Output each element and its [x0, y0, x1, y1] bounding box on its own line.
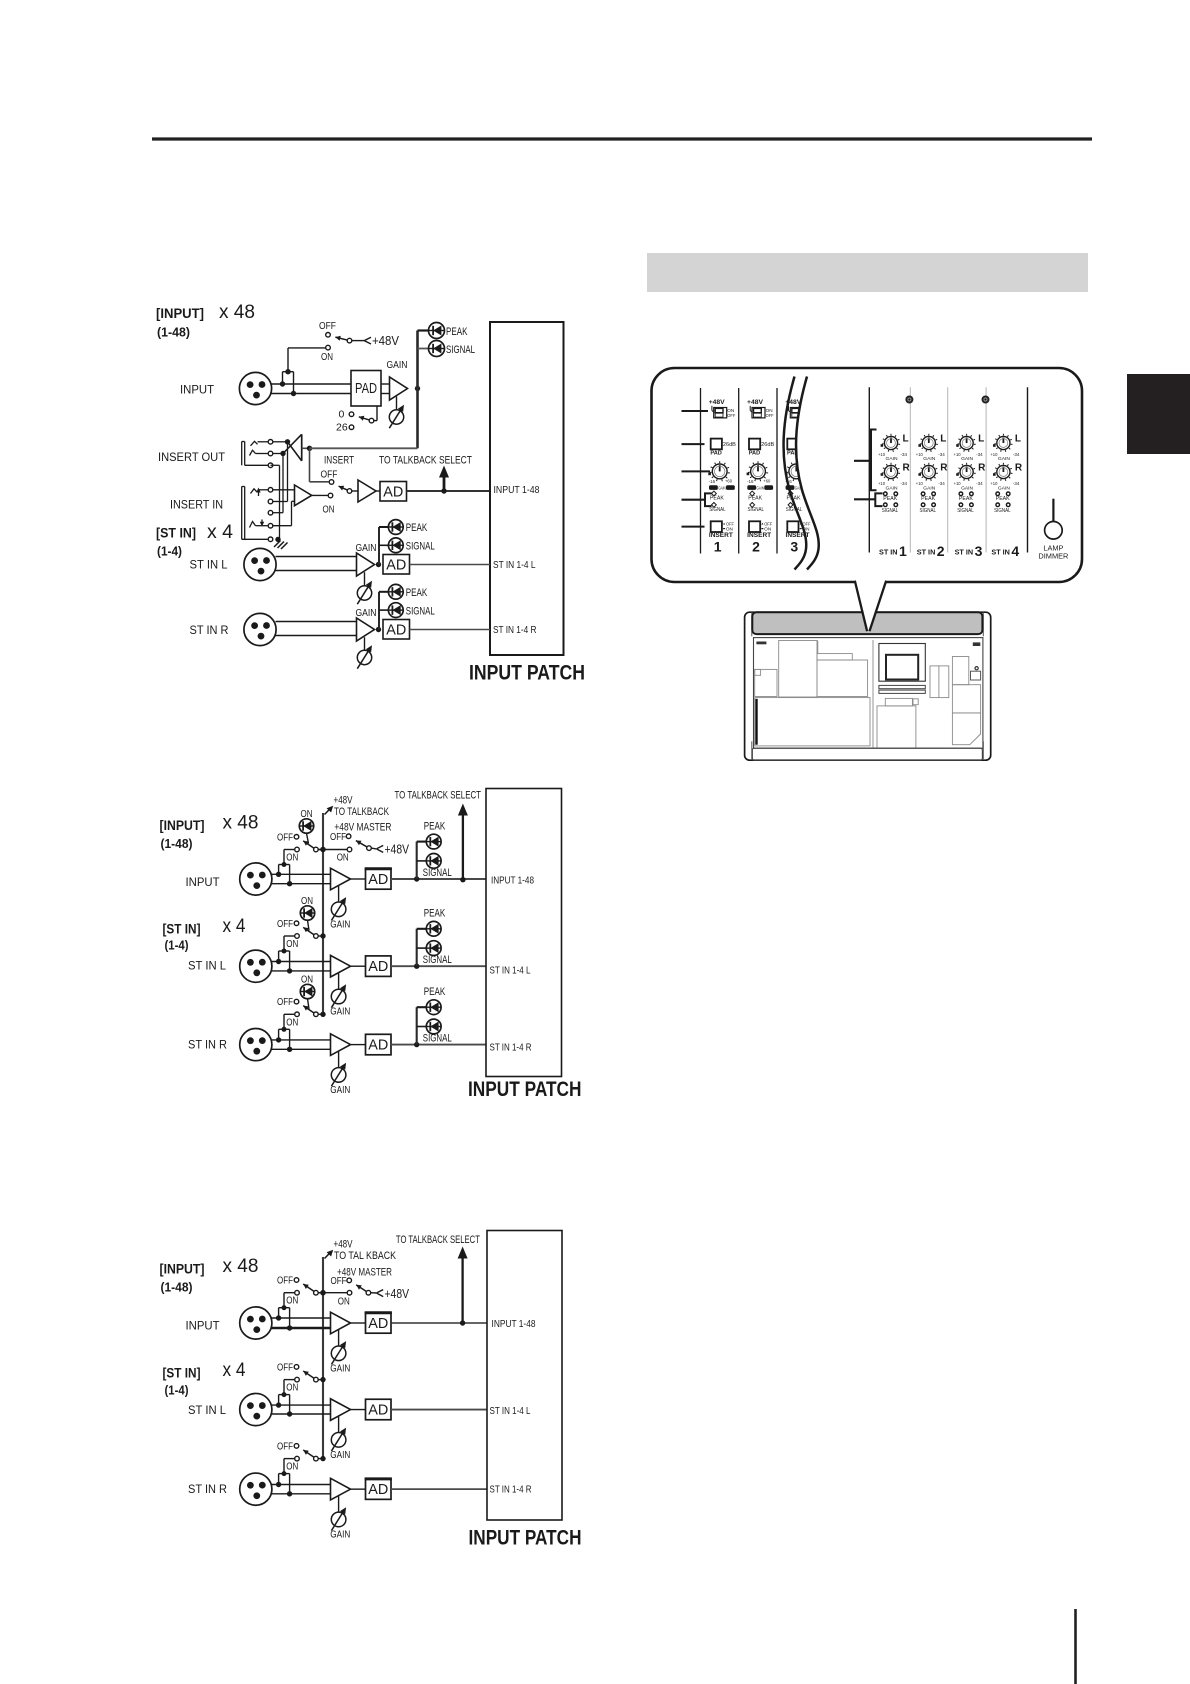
svg-text:PEAK: PEAK — [424, 821, 446, 833]
top horizontal rule — [152, 137, 1092, 140]
svg-text:+60: +60 — [763, 479, 771, 484]
diagram2 INPUT signal tap node — [414, 876, 419, 881]
console right knob — [971, 667, 981, 680]
diagram2 ST IN L phantom ON LED — [300, 895, 314, 931]
diagram2 INPUT phantom ON LED — [299, 808, 313, 844]
svg-text:+48V: +48V — [747, 399, 763, 406]
svg-text:x 48: x 48 — [223, 1256, 259, 1277]
svg-text:ST IN R: ST IN R — [188, 1482, 227, 1496]
svg-text:GAIN: GAIN — [923, 485, 936, 491]
svg-text:[ST IN]: [ST IN] — [156, 526, 196, 541]
svg-text:-16: -16 — [709, 479, 716, 484]
diagram2 ST IN L SIGNAL LED — [417, 941, 452, 966]
diagram1 wire AD to INPUT PATCH — [407, 488, 491, 493]
diagram2 ST IN R phantom wire to XLR — [276, 1014, 295, 1052]
svg-text:PEAK: PEAK — [424, 986, 446, 998]
svg-text:OFF: OFF — [277, 1441, 293, 1453]
panel channel strip 3 — [785, 399, 813, 555]
svg-text:[ST IN]: [ST IN] — [163, 922, 201, 937]
svg-text:3: 3 — [790, 539, 798, 555]
svg-text:ON: ON — [338, 1296, 350, 1308]
diagram3 XLR connector ST IN L — [240, 1393, 272, 1425]
console outline — [745, 612, 991, 760]
diagram2 wire ST IN R AD to INPUT PATCH — [391, 1044, 486, 1046]
diagram1 INSERT ON/OFF switch — [321, 455, 359, 516]
diagram3 INPUT PATCH box — [487, 1231, 562, 1521]
diagram1 line amp before AD — [358, 480, 380, 502]
svg-text:GAIN: GAIN — [330, 1006, 350, 1018]
svg-text:+10: +10 — [878, 452, 886, 457]
diagram2 ST IN R label — [188, 1038, 227, 1052]
svg-text:(1-48): (1-48) — [157, 326, 190, 340]
svg-text:0: 0 — [339, 409, 345, 421]
svg-text:GAIN: GAIN — [998, 485, 1011, 491]
diagram3 ST IN R gain amp — [331, 1478, 351, 1500]
svg-text:INSERT OUT: INSERT OUT — [158, 450, 226, 464]
svg-text:L: L — [940, 434, 946, 445]
svg-text:ON: ON — [286, 1295, 298, 1307]
diagram3 ST IN L gain pot — [330, 1417, 350, 1462]
svg-text:ST IN 1-4 R: ST IN 1-4 R — [490, 1484, 532, 1496]
svg-text:+48V: +48V — [709, 399, 725, 406]
svg-text:ON: ON — [286, 1016, 298, 1028]
diagram1 ST IN L label — [190, 558, 228, 572]
diagram3 ST IN L phantom OFF/ON switch — [277, 1362, 326, 1394]
diagram1 AD converter ST IN R — [383, 620, 490, 640]
svg-text:AD: AD — [368, 1038, 388, 1054]
svg-text:(1-48): (1-48) — [161, 1281, 193, 1295]
console screen — [879, 644, 925, 694]
diagram1 ST IN L gain pot — [357, 572, 372, 604]
svg-text:+10: +10 — [916, 452, 924, 457]
svg-text:ON: ON — [286, 852, 298, 864]
diagram2 port label INPUT 1-48 — [491, 875, 534, 887]
diagram3 INPUT gain pot — [330, 1330, 350, 1375]
svg-text:+48V: +48V — [334, 1239, 353, 1251]
svg-text:PAD: PAD — [355, 381, 377, 397]
svg-text:OFF: OFF — [319, 320, 336, 332]
diagram1 ST IN R SIGNAL LED — [379, 603, 435, 618]
diagram1 ST IN R gain pot — [357, 637, 372, 669]
diagram3 label [ST IN] x 4 (1-4) — [163, 1360, 246, 1398]
svg-text:TO TALKBACK: TO TALKBACK — [334, 806, 389, 818]
diagram2 ST IN L signal tap node — [414, 964, 419, 969]
svg-text:-34: -34 — [1013, 481, 1020, 486]
svg-text:SIGNAL: SIGNAL — [748, 507, 765, 513]
diagram2 INPUT phantom wire to XLR — [276, 850, 295, 887]
svg-text:ST IN 1-4 R: ST IN 1-4 R — [490, 1042, 532, 1054]
svg-text:GAIN: GAIN — [330, 919, 350, 931]
svg-text:SIGNAL: SIGNAL — [406, 541, 435, 553]
svg-text:GAIN: GAIN — [356, 607, 377, 619]
svg-text:AD: AD — [386, 622, 406, 638]
diagram3 AD converter ST IN L — [351, 1399, 392, 1420]
diagram3 port label ST IN 1-4 L — [490, 1405, 531, 1417]
svg-text:TO TALKBACK SELECT: TO TALKBACK SELECT — [379, 455, 472, 467]
svg-text:SIGNAL: SIGNAL — [423, 1032, 452, 1044]
diagram3 +48V MASTER switch — [318, 1267, 409, 1308]
diagram1 gain output node — [415, 331, 420, 449]
svg-text:SIGNAL: SIGNAL — [423, 954, 452, 966]
svg-text:+10: +10 — [990, 452, 998, 457]
diagram1 INSERT IN jack — [242, 487, 273, 542]
svg-text:-34: -34 — [976, 452, 983, 457]
diagram2 port label ST IN 1-4 R — [490, 1042, 532, 1054]
console callout pointer tip — [855, 581, 886, 632]
diagram1 PEAK LED — [418, 323, 468, 339]
svg-text:-34: -34 — [976, 481, 983, 486]
diagram3 ST IN R gain pot — [330, 1496, 350, 1541]
diagram1 PAD block — [351, 371, 381, 407]
svg-text:AD: AD — [368, 959, 388, 975]
svg-text:+48V: +48V — [372, 333, 399, 348]
svg-text:R: R — [903, 463, 911, 474]
svg-text:[INPUT]: [INPUT] — [160, 818, 205, 833]
svg-text:ON: ON — [726, 526, 733, 531]
diagram3 TO TALKBACK SELECT arrow — [396, 1234, 480, 1326]
diagram2 +48V bus wire — [322, 813, 324, 1014]
diagram3 INPUT phantom wire to XLR — [276, 1293, 295, 1331]
svg-text:PEAK: PEAK — [748, 495, 762, 501]
svg-text:TO TAL KBACK: TO TAL KBACK — [334, 1250, 397, 1262]
diagram2 AD converter ST IN R — [351, 1034, 392, 1055]
console model logo — [973, 642, 981, 646]
svg-text:2: 2 — [937, 543, 945, 559]
svg-text:R: R — [940, 463, 948, 474]
diagram1 ST IN L GAIN label and amp — [356, 542, 382, 576]
svg-text:-34: -34 — [938, 481, 945, 486]
svg-text:PEAK: PEAK — [710, 495, 724, 501]
svg-text:-34: -34 — [901, 481, 908, 486]
diagram1 AD converter INPUT — [380, 482, 407, 502]
svg-text:INPUT PATCH: INPUT PATCH — [469, 661, 585, 685]
diagram1 phantom feed wire to XLR — [280, 348, 326, 396]
diagram2 port label ST IN 1-4 L — [490, 965, 531, 977]
diagram1 INSERT OUT label — [158, 450, 226, 464]
diagram1 PAD 0/26 switch — [336, 406, 377, 434]
svg-text:PEAK: PEAK — [921, 496, 935, 502]
svg-text:OFF: OFF — [277, 1275, 293, 1287]
svg-text:1: 1 — [714, 539, 722, 555]
diagram1 port label INPUT 1-48 — [494, 484, 540, 496]
diagram2 ST IN L phantom wire to XLR — [276, 936, 295, 974]
svg-text:+48V: +48V — [385, 1286, 410, 1301]
diagram3 wires ST IN R to amp — [272, 1485, 331, 1494]
svg-text:PAD: PAD — [710, 451, 722, 457]
svg-text:INPUT PATCH: INPUT PATCH — [469, 1527, 582, 1550]
diagram3 INPUT PATCH title — [469, 1527, 582, 1550]
diagram1 AD converter ST IN L — [383, 555, 490, 575]
svg-text:1: 1 — [899, 543, 907, 559]
svg-text:ON: ON — [321, 351, 333, 363]
diagram2 ST IN R SIGNAL LED — [417, 1019, 452, 1044]
diagram1 wires PAD to gain amp — [381, 384, 390, 394]
diagram2 AD converter ST IN L — [351, 956, 392, 977]
diagram2 wires ST IN L to amp — [272, 962, 331, 971]
svg-text:PEAK: PEAK — [996, 496, 1010, 502]
console meter bridge gray bar — [752, 612, 982, 634]
console armrest — [752, 748, 982, 760]
diagram1 ST IN L PEAK LED — [379, 520, 428, 565]
svg-text:x 4: x 4 — [207, 522, 233, 543]
svg-text:L: L — [1015, 434, 1021, 445]
svg-text:INPUT 1-48: INPUT 1-48 — [492, 1318, 536, 1330]
panel channel strip 2 — [747, 399, 775, 555]
diagram2 XLR connector ST IN R — [240, 1029, 272, 1061]
diagram1 insert send wires — [271, 439, 291, 539]
svg-text:PEAK: PEAK — [959, 496, 973, 502]
panel ST IN strip 4 — [990, 434, 1023, 560]
panel channel strip 1 — [708, 399, 736, 555]
diagram3 wire ST IN L AD to INPUT PATCH — [391, 1409, 487, 1411]
svg-text:ON: ON — [764, 526, 771, 531]
diagram1 ST IN R PEAK LED — [379, 584, 428, 629]
svg-text:[INPUT]: [INPUT] — [156, 306, 204, 321]
panel channel1 PEAK/SIGNAL bracket — [705, 493, 712, 506]
diagram3 XLR connector ST IN R — [240, 1473, 272, 1505]
svg-text:3: 3 — [975, 543, 983, 559]
diagram2 wires ST IN R to amp — [272, 1040, 331, 1049]
svg-text:x 4: x 4 — [223, 916, 246, 937]
svg-text:OFF: OFF — [277, 831, 293, 843]
diagram1 INPUT label — [180, 383, 215, 397]
svg-text:[ST IN]: [ST IN] — [163, 1366, 201, 1381]
panel ST IN strip 3 — [954, 434, 987, 560]
diagram1 INSERT IN label — [170, 498, 223, 512]
svg-text:26dB: 26dB — [723, 442, 737, 448]
diagram2 INPUT gain pot — [330, 886, 350, 931]
svg-text:ON: ON — [337, 852, 349, 864]
svg-text:2: 2 — [752, 539, 760, 555]
svg-text:26dB: 26dB — [761, 442, 775, 448]
diagram1 INPUT PATCH box — [490, 322, 564, 655]
svg-text:SIGNAL: SIGNAL — [709, 507, 726, 513]
diagram3 port label INPUT 1-48 — [492, 1318, 536, 1330]
svg-text:OFF: OFF — [330, 831, 346, 843]
console fader bank mark — [755, 699, 757, 745]
diagram2 ST IN L gain amp — [331, 955, 351, 977]
svg-text:ST IN 1-4 L: ST IN 1-4 L — [490, 965, 531, 977]
diagram3 label [INPUT] x 48 (1-48) — [160, 1256, 259, 1295]
diagram2 wire INPUT AD to INPUT PATCH — [391, 878, 486, 880]
svg-text:GAIN: GAIN — [356, 542, 377, 554]
diagram2 wire ST IN L AD to INPUT PATCH — [391, 965, 486, 967]
panel screws — [906, 397, 988, 403]
svg-text:-16: -16 — [747, 479, 754, 484]
diagram2 INPUT phantom OFF/ON switch — [277, 831, 326, 863]
svg-text:TO TALKBACK SELECT: TO TALKBACK SELECT — [396, 1234, 480, 1246]
svg-text:+10: +10 — [990, 481, 998, 486]
svg-text:4: 4 — [1011, 543, 1019, 559]
svg-text:SIGNAL: SIGNAL — [446, 344, 475, 356]
svg-text:ST IN: ST IN — [917, 550, 936, 557]
svg-text:OFF: OFF — [321, 469, 338, 481]
diagram1 gain amp — [390, 377, 408, 400]
svg-text:AD: AD — [368, 1403, 388, 1419]
diagram2 ST IN L label — [188, 959, 226, 973]
diagram1 INSERT OUT jack — [242, 440, 273, 468]
diagram1 port label ST IN 1-4 R — [493, 624, 537, 636]
svg-text:INPUT 1-48: INPUT 1-48 — [491, 875, 534, 887]
svg-text:AD: AD — [368, 1316, 388, 1332]
panel ST IN strip 2 — [916, 434, 949, 560]
svg-text:GAIN: GAIN — [718, 485, 726, 490]
diagram1 insert ground — [274, 537, 288, 549]
svg-text:ON: ON — [286, 1461, 298, 1473]
svg-text:INPUT 1-48: INPUT 1-48 — [494, 484, 540, 496]
diagram2 ST IN R phantom OFF/ON switch — [277, 996, 326, 1028]
diagram3 +48V bus wire — [322, 1257, 324, 1459]
diagram3 XLR connector INPUT — [240, 1307, 272, 1339]
diagram2 TO TALKBACK SELECT arrow — [395, 790, 482, 883]
diagram3 AD converter INPUT — [351, 1313, 392, 1334]
diagram2 +48V TO TALKBACK feed — [325, 795, 390, 819]
svg-text:OFF: OFF — [766, 413, 774, 418]
svg-text:GAIN: GAIN — [330, 1084, 350, 1096]
diagram1 label [INPUT] x 48 (1-48) — [156, 302, 255, 340]
svg-text:GAIN: GAIN — [886, 456, 899, 462]
svg-text:ST IN R: ST IN R — [190, 623, 229, 637]
diagram1 XLR connector INPUT — [239, 372, 271, 404]
svg-text:ST IN L: ST IN L — [190, 558, 228, 572]
svg-text:ST IN 1-4 L: ST IN 1-4 L — [493, 559, 536, 571]
svg-text:(1-48): (1-48) — [161, 837, 193, 851]
svg-text:OFF: OFF — [727, 413, 735, 418]
svg-text:GAIN: GAIN — [387, 359, 408, 371]
svg-text:ST IN 1-4 R: ST IN 1-4 R — [493, 624, 537, 636]
svg-text:ST IN L: ST IN L — [188, 959, 226, 973]
diagram1 ST IN R GAIN label and amp — [356, 607, 382, 641]
diagram2 +48V MASTER switch — [318, 822, 409, 864]
diagram2 ST IN L PEAK LED — [417, 908, 446, 967]
svg-text:-34: -34 — [1013, 452, 1020, 457]
diagram3 ST IN R phantom wire to XLR — [276, 1459, 295, 1497]
svg-text:SIGNAL: SIGNAL — [423, 867, 452, 879]
svg-text:[INPUT]: [INPUT] — [160, 1262, 205, 1277]
svg-text:+10: +10 — [878, 481, 886, 486]
diagram3 AD converter ST IN R — [351, 1479, 392, 1500]
diagram1 ST IN L SIGNAL LED — [379, 538, 435, 553]
svg-text:R: R — [1015, 463, 1023, 474]
svg-text:GAIN: GAIN — [757, 485, 765, 490]
diagram2 INPUT gain amp — [331, 868, 351, 890]
svg-text:ST IN 1-4 L: ST IN 1-4 L — [490, 1405, 531, 1417]
diagram1 insert return amp — [295, 485, 329, 506]
diagram2 XLR connector INPUT — [240, 863, 272, 895]
diagram2 AD converter INPUT — [351, 869, 392, 890]
diagram3 +48V TO TALKBACK feed — [325, 1239, 397, 1263]
diagram3 ST IN L phantom wire to XLR — [276, 1380, 295, 1417]
chapter tab black block — [1127, 374, 1190, 454]
diagram3 ST IN R label — [188, 1482, 227, 1496]
svg-text:INPUT: INPUT — [180, 383, 215, 397]
diagram3 INPUT label — [186, 1319, 221, 1333]
svg-text:+10: +10 — [954, 452, 962, 457]
svg-text:OFF: OFF — [277, 1362, 293, 1374]
svg-text:SIGNAL: SIGNAL — [957, 508, 974, 514]
svg-text:R: R — [978, 463, 986, 474]
svg-text:+48V: +48V — [385, 842, 410, 857]
diagram2 INPUT label — [186, 875, 221, 889]
svg-text:ST IN: ST IN — [879, 550, 898, 557]
console work surface — [754, 638, 983, 749]
svg-text:ON: ON — [323, 504, 335, 516]
diagram2 wires INPUT to amp — [272, 874, 331, 883]
panel callout balloon — [652, 368, 1083, 631]
svg-text:INSERT: INSERT — [324, 455, 354, 467]
svg-text:ST IN L: ST IN L — [188, 1403, 226, 1417]
svg-text:AD: AD — [368, 1482, 388, 1498]
diagram1 ST IN R label — [190, 623, 229, 637]
svg-text:+10: +10 — [954, 481, 962, 486]
svg-text:OFF: OFF — [277, 996, 293, 1008]
diagram1 wires ST IN L to amp — [276, 557, 357, 571]
diagram1 GAIN label — [387, 359, 408, 371]
diagram1 insert return wires — [273, 490, 295, 526]
svg-text:INPUT: INPUT — [186, 1319, 221, 1333]
svg-text:-34: -34 — [938, 452, 945, 457]
svg-text:+48V: +48V — [334, 795, 353, 807]
diagram3 port label ST IN 1-4 R — [490, 1484, 532, 1496]
svg-text:(1-4): (1-4) — [165, 939, 189, 953]
svg-text:GAIN: GAIN — [330, 1449, 350, 1461]
svg-text:DIMMER: DIMMER — [1038, 552, 1069, 561]
section heading gray bar — [647, 253, 1088, 292]
svg-text:x 48: x 48 — [219, 302, 255, 323]
diagram2 ST IN R signal tap node — [414, 1042, 419, 1047]
svg-text:GAIN: GAIN — [330, 1363, 350, 1375]
svg-text:OFF: OFF — [277, 918, 293, 930]
svg-text:INPUT: INPUT — [186, 875, 221, 889]
svg-text:PAD: PAD — [749, 451, 761, 457]
diagram3 wire INPUT AD to INPUT PATCH — [391, 1322, 487, 1324]
svg-text:GAIN: GAIN — [961, 456, 974, 462]
diagram1 wire gain node to insert send — [310, 447, 418, 449]
svg-text:ON: ON — [286, 1382, 298, 1394]
svg-text:L: L — [978, 434, 984, 445]
diagram2 ST IN L phantom OFF/ON switch — [277, 918, 326, 950]
panel channel separators — [701, 388, 778, 554]
svg-text:INPUT PATCH: INPUT PATCH — [468, 1078, 582, 1101]
svg-text:SIGNAL: SIGNAL — [920, 508, 937, 514]
svg-text:L: L — [903, 434, 909, 445]
diagram2 ST IN R gain pot — [330, 1052, 350, 1097]
diagram1 insert send driver — [283, 434, 312, 461]
diagram3 wires ST IN L to amp — [272, 1405, 331, 1414]
svg-text:GAIN: GAIN — [923, 456, 936, 462]
svg-text:GAIN: GAIN — [961, 485, 974, 491]
diagram2 label [INPUT] x 48 (1-48) — [160, 813, 259, 852]
svg-text:ST IN: ST IN — [955, 550, 974, 557]
svg-text:SIGNAL: SIGNAL — [406, 605, 435, 617]
panel LAMP DIMMER control — [1038, 499, 1069, 561]
diagram1 XLR connector ST IN L — [244, 548, 276, 580]
svg-text:PEAK: PEAK — [424, 908, 446, 920]
diagram3 ST IN L gain amp — [331, 1399, 351, 1421]
diagram1 gain pot — [389, 397, 404, 429]
diagram1 TO TALKBACK SELECT arrow — [379, 455, 472, 492]
svg-text:ON: ON — [286, 938, 298, 950]
diagram3 INPUT gain amp — [331, 1312, 351, 1334]
svg-text:-34: -34 — [901, 452, 908, 457]
svg-text:GAIN: GAIN — [330, 1529, 350, 1541]
diagram1 SIGNAL LED — [418, 341, 476, 357]
console surface section lines — [755, 640, 981, 748]
svg-text:GAIN: GAIN — [886, 485, 899, 491]
svg-text:SIGNAL: SIGNAL — [994, 508, 1011, 514]
diagram2 ST IN R PEAK LED — [417, 986, 446, 1045]
svg-text:GAIN: GAIN — [998, 456, 1011, 462]
